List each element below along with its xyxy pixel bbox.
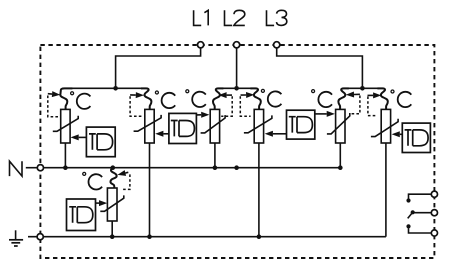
arrow U2	[130, 92, 144, 98]
label degC U7	[83, 172, 86, 175]
enclosure dashed border	[40, 45, 434, 258]
TD box 4	[402, 123, 430, 152]
thermal contact U6	[377, 88, 387, 109]
linkage U3	[221, 96, 232, 116]
thermal contact U3	[213, 88, 223, 109]
junction RV3-N	[213, 165, 218, 170]
varistor RV2	[145, 109, 154, 143]
junction RV2-PE	[147, 234, 152, 239]
ground	[15, 230, 17, 239]
terminal L1	[198, 42, 204, 48]
arrow TD3-RV4	[265, 131, 287, 137]
wire RV6 lead	[385, 143, 387, 237]
wire N stub	[26, 167, 37, 169]
wire N bus	[44, 167, 341, 169]
terminal contact K1	[431, 191, 437, 197]
label N	[10, 161, 23, 176]
junction RV5-N	[338, 165, 343, 170]
wire bus pair3	[347, 87, 379, 89]
linkage U6	[368, 96, 378, 115]
varistor RV1	[61, 109, 70, 143]
wire PE bus	[28, 236, 386, 238]
wire bus pair1	[70, 87, 142, 89]
junction RV7-PE	[110, 234, 115, 239]
linkage U7	[121, 174, 130, 189]
wire RV2 lead	[149, 143, 151, 237]
junction RV4-PE	[257, 234, 262, 239]
wire L2 feed	[236, 48, 238, 89]
linkage U4	[240, 96, 250, 116]
terminal L2	[234, 42, 240, 48]
label L3	[267, 10, 275, 25]
junction L3 drop	[360, 86, 365, 91]
junction node X	[234, 165, 239, 170]
label degC U1	[71, 92, 74, 95]
wire RV7 lead	[111, 221, 113, 237]
varistor RV7	[107, 188, 117, 221]
junction L1 drop	[113, 86, 118, 91]
terminal PE	[37, 234, 43, 240]
thermal contact U5	[338, 88, 348, 109]
TD box 1	[86, 127, 115, 157]
linkage U5	[350, 96, 360, 114]
TD box 3	[287, 110, 315, 139]
terminal N	[37, 165, 43, 171]
varistor RV5	[336, 109, 345, 143]
label L2	[225, 10, 233, 25]
wire bus pair2	[222, 87, 252, 89]
contact K3 blade	[409, 229, 432, 234]
arrow U4	[241, 92, 255, 98]
arrow U1	[48, 91, 60, 97]
junction RV1-N	[63, 165, 68, 170]
arrow U6	[368, 92, 382, 98]
arrow TD2-RV3	[196, 112, 209, 118]
thermal contact U2	[141, 88, 151, 109]
label L1	[194, 10, 202, 25]
linkage U2	[130, 96, 143, 116]
arrow U5	[346, 92, 360, 98]
contact K2 blade	[413, 212, 431, 214]
label degC U3	[186, 90, 189, 93]
wire L3 feed	[277, 48, 363, 89]
label degC U5	[312, 90, 315, 93]
wire RV3 lead	[214, 143, 216, 168]
arrow TD5-RV7	[96, 200, 108, 206]
varistor RV6	[381, 109, 390, 143]
arrow TD2-RV2	[155, 131, 169, 137]
TD box 5	[67, 199, 96, 231]
wire L1 feed	[116, 48, 201, 89]
junction L2 drop	[234, 86, 239, 91]
terminal contact K3	[431, 230, 437, 236]
linkage U1	[48, 96, 60, 117]
junction N-PE top	[111, 165, 116, 170]
terminal contact K2	[431, 210, 437, 216]
wire RV1 lead	[64, 143, 66, 168]
label degC U6	[391, 90, 394, 93]
wire RV5 lead	[339, 143, 341, 168]
thermal contact U1	[60, 88, 72, 109]
label degC U2	[155, 91, 158, 94]
varistor RV3	[210, 109, 219, 143]
TD box 2	[169, 113, 197, 143]
arrow U7	[117, 170, 128, 176]
arrow TD1-RV1	[71, 134, 87, 140]
thermal contact U4	[250, 88, 260, 109]
varistor RV4	[254, 109, 263, 143]
contact K1 blade	[409, 194, 432, 198]
label degC U4	[261, 89, 264, 92]
terminal L3	[274, 42, 280, 48]
arrow TD3-RV5	[315, 111, 335, 117]
arrow TD4-RV6	[392, 131, 403, 137]
arrow U3	[218, 92, 232, 98]
thermal contact U7	[110, 168, 116, 188]
wire RV4 lead	[258, 143, 260, 237]
